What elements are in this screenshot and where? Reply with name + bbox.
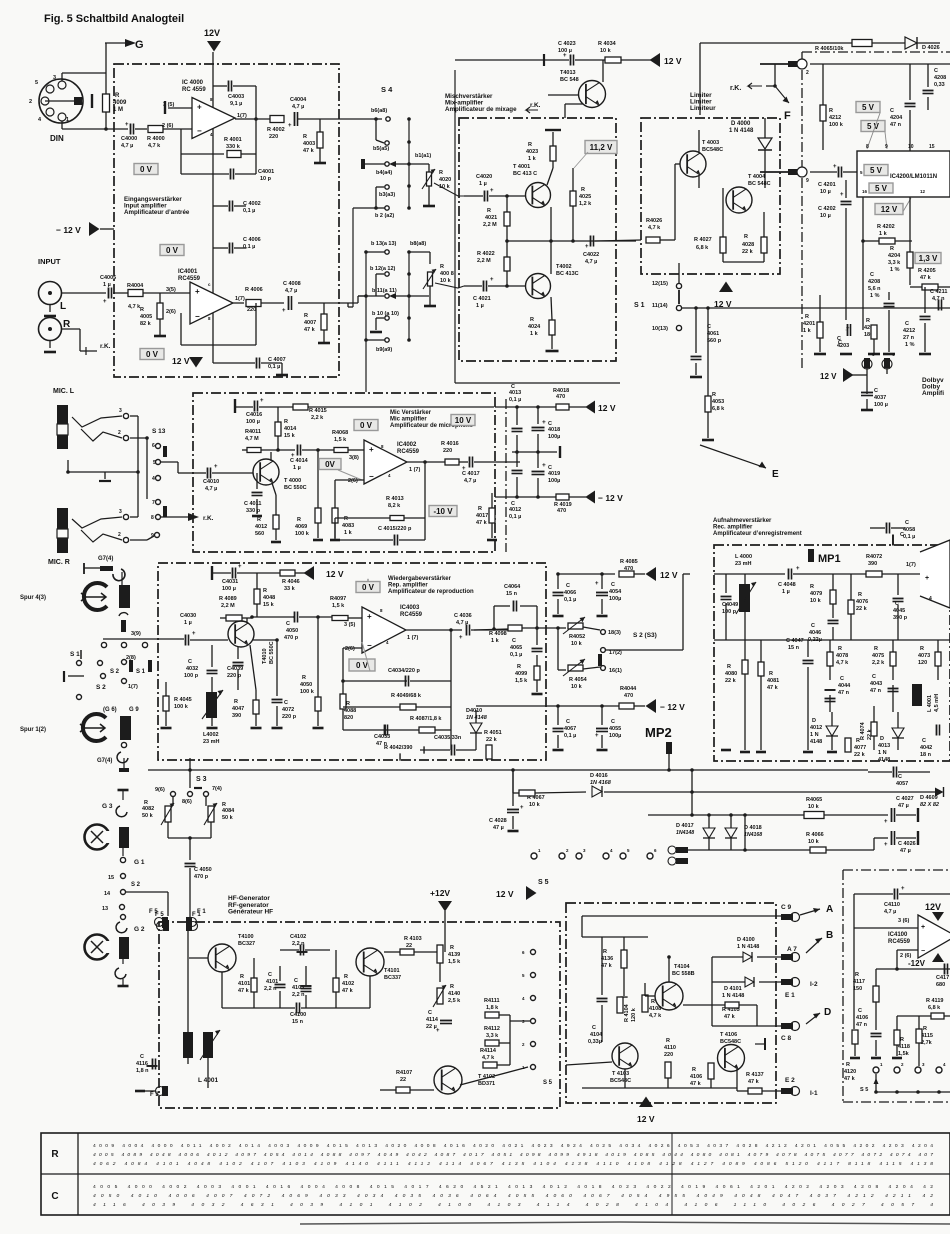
svg-text:MIC. L: MIC. L <box>53 388 75 395</box>
svg-text:T 4000: T 4000 <box>284 478 301 484</box>
svg-text:560 p: 560 p <box>707 338 722 344</box>
svg-text:4,7 µ: 4,7 µ <box>205 486 217 492</box>
svg-text:BC 550C: BC 550C <box>269 641 275 664</box>
svg-text:C 4027: C 4027 <box>896 796 914 802</box>
svg-text:1 N 4148: 1 N 4148 <box>722 993 744 999</box>
svg-text:470 p: 470 p <box>284 635 299 641</box>
svg-text:BD371: BD371 <box>478 1081 495 1087</box>
svg-text:Amplificateur d’enregistrement: Amplificateur d’enregistrement <box>713 531 802 537</box>
svg-text:R: R <box>855 972 859 978</box>
svg-text:4048: 4048 <box>263 595 275 601</box>
svg-text:S 3: S 3 <box>196 776 207 783</box>
svg-text:R 4089: R 4089 <box>219 596 237 602</box>
svg-text:4140: 4140 <box>448 991 460 997</box>
svg-text:47 µ: 47 µ <box>900 848 911 854</box>
svg-text:4117: 4117 <box>853 979 865 985</box>
svg-text:b1(a1): b1(a1) <box>415 153 431 159</box>
svg-text:C: C <box>566 583 570 589</box>
svg-text:C: C <box>905 520 909 526</box>
svg-text:S 2: S 2 <box>110 669 120 675</box>
svg-text:-12V: -12V <box>908 959 926 968</box>
svg-text:22: 22 <box>400 1077 406 1083</box>
svg-text:T4104: T4104 <box>674 964 691 970</box>
svg-text:C: C <box>872 674 876 680</box>
svg-text:G7(4): G7(4) <box>98 556 113 562</box>
svg-text:C: C <box>284 700 288 706</box>
svg-text:b 13(a 13): b 13(a 13) <box>371 241 397 247</box>
svg-text:F 5: F 5 <box>149 909 158 915</box>
svg-text:2,7k: 2,7k <box>921 1040 933 1046</box>
svg-text:R: R <box>920 646 924 652</box>
svg-text:R 4006: R 4006 <box>245 287 263 293</box>
svg-text:9: 9 <box>806 178 809 184</box>
svg-text:D 4018: D 4018 <box>744 825 762 831</box>
svg-text:15 k: 15 k <box>263 602 275 608</box>
svg-text:47 k: 47 k <box>844 1076 856 1082</box>
svg-text:1 M: 1 M <box>113 107 123 113</box>
svg-text:10 p: 10 p <box>260 176 272 182</box>
svg-text:3 (5): 3 (5) <box>344 622 355 628</box>
svg-text:4023: 4023 <box>526 149 538 155</box>
svg-text:R4044: R4044 <box>620 686 637 692</box>
svg-text:+: + <box>563 53 567 59</box>
svg-text:0,1 µ: 0,1 µ <box>268 364 280 370</box>
svg-text:L 4000: L 4000 <box>735 554 752 560</box>
svg-text:0 V: 0 V <box>360 421 373 430</box>
svg-text:470: 470 <box>624 693 633 699</box>
svg-text:− 12 V: − 12 V <box>56 225 81 235</box>
svg-text:R: R <box>440 264 444 270</box>
svg-text:+: + <box>595 733 599 739</box>
svg-text:6: 6 <box>152 443 155 449</box>
svg-text:RC4559: RC4559 <box>888 939 911 945</box>
svg-text:C: C <box>611 582 615 588</box>
svg-text:+: + <box>585 244 589 250</box>
svg-text:1 (7): 1 (7) <box>409 467 420 473</box>
svg-text:Rep. amplifier: Rep. amplifier <box>388 583 428 589</box>
svg-text:23 mH: 23 mH <box>735 561 752 567</box>
svg-text:BC 548C: BC 548C <box>748 181 771 187</box>
svg-text:R 4046: R 4046 <box>282 579 300 585</box>
svg-text:5 V: 5 V <box>862 103 875 112</box>
svg-text:R 4119: R 4119 <box>926 998 943 1004</box>
svg-text:+: + <box>840 192 844 198</box>
svg-text:4020: 4020 <box>439 177 451 183</box>
svg-text:−: − <box>921 948 925 955</box>
svg-text:BC 558B: BC 558B <box>672 971 695 977</box>
svg-text:470: 470 <box>557 508 566 514</box>
svg-text:470 p: 470 p <box>194 874 209 880</box>
svg-text:1,5 k: 1,5 k <box>332 603 345 609</box>
svg-text:1(7): 1(7) <box>128 684 138 690</box>
svg-text:0V: 0V <box>325 460 335 469</box>
svg-text:1 (7): 1 (7) <box>407 635 418 641</box>
svg-text:R 4016: R 4016 <box>441 441 459 447</box>
svg-text:4065: 4065 <box>510 645 522 651</box>
svg-text:4028: 4028 <box>742 242 754 248</box>
svg-text:4067: 4067 <box>564 726 576 732</box>
svg-text:4,7 n: 4,7 n <box>932 296 945 302</box>
svg-text:S 1: S 1 <box>136 669 146 675</box>
svg-text:4,7 k: 4,7 k <box>836 660 849 666</box>
svg-text:82 X 82: 82 X 82 <box>920 802 939 808</box>
svg-text:R: R <box>603 949 607 955</box>
svg-text:+: + <box>197 103 202 112</box>
svg-text:100 p: 100 p <box>184 673 199 679</box>
svg-text:1 µ: 1 µ <box>782 589 790 595</box>
svg-text:1(7): 1(7) <box>235 296 245 302</box>
svg-text:4072: 4072 <box>282 707 294 713</box>
svg-text:16: 16 <box>862 189 868 194</box>
svg-text:R: R <box>140 307 144 313</box>
svg-text:100 k: 100 k <box>295 531 310 537</box>
svg-text:C 4028: C 4028 <box>489 818 507 824</box>
svg-text:R: R <box>257 517 261 523</box>
svg-text:+: + <box>125 122 129 128</box>
svg-text:100µ: 100µ <box>548 478 560 484</box>
svg-text:3: 3 <box>119 408 122 414</box>
svg-text:R: R <box>450 984 454 990</box>
svg-text:1,8 n: 1,8 n <box>136 1068 149 1074</box>
svg-text:b8(a8): b8(a8) <box>410 241 426 247</box>
svg-text:S 4: S 4 <box>381 85 393 94</box>
svg-text:1,8 k: 1,8 k <box>486 1005 499 1011</box>
svg-text:1: 1 <box>66 117 69 123</box>
svg-text:R 4087/1,8 k: R 4087/1,8 k <box>410 716 442 722</box>
svg-text:R: R <box>303 134 307 140</box>
svg-text:220: 220 <box>443 448 452 454</box>
svg-text:47 k: 47 k <box>342 988 354 994</box>
svg-text:R: R <box>874 646 878 652</box>
svg-text:C 4023: C 4023 <box>558 41 576 47</box>
svg-text:4106: 4106 <box>690 1074 702 1080</box>
svg-text:4007: 4007 <box>304 320 316 326</box>
svg-text:R: R <box>769 671 773 677</box>
svg-text:BC548C: BC548C <box>702 147 723 153</box>
svg-text:C: C <box>51 1191 58 1202</box>
svg-text:+: + <box>192 631 196 637</box>
svg-text:4104: 4104 <box>590 1032 603 1038</box>
svg-text:R4072: R4072 <box>866 554 882 560</box>
svg-text:G 1: G 1 <box>134 859 145 866</box>
svg-text:4012: 4012 <box>509 507 521 513</box>
svg-text:Aufnahmeverstärker: Aufnahmeverstärker <box>713 518 772 524</box>
svg-text:1 N: 1 N <box>878 750 887 756</box>
svg-text:− 12 V: − 12 V <box>660 702 685 712</box>
svg-text:R: R <box>344 516 348 522</box>
svg-text:680: 680 <box>936 982 945 988</box>
svg-text:1,5k: 1,5k <box>898 1051 910 1057</box>
svg-text:9: 9 <box>885 144 888 150</box>
svg-text:C4110: C4110 <box>884 902 900 908</box>
svg-text:4,7 k: 4,7 k <box>148 143 161 149</box>
svg-text:+: + <box>459 635 463 641</box>
svg-text:1 µ: 1 µ <box>479 181 487 187</box>
svg-text:R4026: R4026 <box>646 218 662 224</box>
svg-text:8: 8 <box>866 144 869 150</box>
svg-text:1,5 k: 1,5 k <box>334 437 347 443</box>
svg-text:4099: 4099 <box>515 671 527 677</box>
svg-text:R: R <box>234 699 238 705</box>
svg-text:1,5 k: 1,5 k <box>448 959 461 965</box>
svg-text:D: D <box>812 718 816 724</box>
svg-text:4009: 4009 <box>113 100 127 106</box>
svg-text:2: 2 <box>29 99 32 105</box>
svg-text:8,2 k: 8,2 k <box>388 503 401 509</box>
svg-text:C 4050: C 4050 <box>194 867 212 873</box>
svg-text:(G 6): (G 6) <box>103 707 117 713</box>
svg-text:R: R <box>890 246 894 252</box>
svg-text:4148: 4148 <box>810 739 822 745</box>
svg-text:r.K.: r.K. <box>730 85 741 92</box>
svg-text:10 k: 10 k <box>808 804 820 810</box>
svg-text:b3(a3): b3(a3) <box>379 192 395 198</box>
svg-text:R: R <box>727 664 731 670</box>
svg-text:2,2 M: 2,2 M <box>221 603 235 609</box>
svg-text:2,5 k: 2,5 k <box>448 998 461 1004</box>
svg-text:C4001: C4001 <box>258 169 274 175</box>
svg-text:1,3 V: 1,3 V <box>919 254 938 263</box>
svg-text:+: + <box>833 164 837 170</box>
svg-text:C 8: C 8 <box>781 1035 792 1042</box>
svg-text:F 1: F 1 <box>197 909 206 915</box>
svg-text:7(4): 7(4) <box>212 786 222 792</box>
svg-text:15 n: 15 n <box>506 591 518 597</box>
svg-text:R4011: R4011 <box>245 429 261 435</box>
svg-text:BC337: BC337 <box>384 975 401 981</box>
svg-text:5,6 n: 5,6 n <box>868 286 881 292</box>
svg-text:R: R <box>923 1026 927 1032</box>
svg-text:B: B <box>826 930 833 941</box>
svg-text:T4013: T4013 <box>560 70 576 76</box>
svg-text:4013: 4013 <box>509 390 521 396</box>
svg-text:+: + <box>260 398 264 404</box>
svg-text:0,1 µ: 0,1 µ <box>243 244 255 250</box>
svg-text:BC548C: BC548C <box>720 1039 741 1045</box>
svg-text:G 3: G 3 <box>102 803 113 810</box>
svg-text:1,2 k: 1,2 k <box>579 201 592 207</box>
svg-text:C 4048: C 4048 <box>778 582 796 588</box>
svg-text:1 k: 1 k <box>803 328 812 334</box>
svg-text:1N4168: 1N4168 <box>744 832 762 838</box>
svg-text:4024: 4024 <box>528 324 541 330</box>
svg-text:C: C <box>905 321 909 327</box>
svg-text:4,7 µ: 4,7 µ <box>464 478 476 484</box>
svg-text:R: R <box>263 588 267 594</box>
svg-text:4084: 4084 <box>222 808 235 814</box>
svg-text:R: R <box>297 517 301 523</box>
svg-text:4043: 4043 <box>870 681 882 687</box>
svg-text:r.K.: r.K. <box>530 102 541 109</box>
svg-text:C417: C417 <box>936 975 949 981</box>
svg-text:18 n: 18 n <box>920 752 932 758</box>
svg-text:T 4004: T 4004 <box>748 174 766 180</box>
svg-text:47 µ: 47 µ <box>493 825 504 831</box>
svg-text:E 1: E 1 <box>785 992 795 999</box>
svg-text:100µ: 100µ <box>609 733 621 739</box>
svg-text:D: D <box>824 1007 831 1018</box>
svg-text:T 4001: T 4001 <box>513 164 530 170</box>
svg-text:2: 2 <box>118 430 121 436</box>
svg-text:47 n: 47 n <box>870 688 882 694</box>
svg-text:4081: 4081 <box>767 678 779 684</box>
svg-text:2,2 M: 2,2 M <box>477 258 491 264</box>
svg-text:b 12(a 12): b 12(a 12) <box>370 266 396 272</box>
svg-text:4050: 4050 <box>300 682 312 688</box>
svg-text:R: R <box>284 419 288 425</box>
svg-text:4203: 4203 <box>837 343 849 349</box>
svg-text:4046: 4046 <box>809 630 821 636</box>
svg-text:T 4106: T 4106 <box>720 1032 737 1038</box>
svg-text:A 7: A 7 <box>787 946 797 953</box>
svg-text:4066: 4066 <box>564 590 576 596</box>
svg-text:1N 4168: 1N 4168 <box>590 780 612 786</box>
svg-text:0 V: 0 V <box>166 246 179 255</box>
svg-text:R: R <box>838 646 842 652</box>
svg-text:0,1 µ: 0,1 µ <box>903 534 915 540</box>
svg-text:C: C <box>898 774 902 780</box>
svg-text:2(6): 2(6) <box>166 309 176 315</box>
svg-text:4139: 4139 <box>448 952 460 958</box>
svg-text:R 4202: R 4202 <box>877 224 895 230</box>
svg-text:47 n: 47 n <box>856 1022 868 1028</box>
svg-text:IC4002: IC4002 <box>397 442 417 448</box>
svg-text:+: + <box>884 842 888 848</box>
svg-text:4055: 4055 <box>609 726 621 732</box>
svg-text:S 5: S 5 <box>543 1080 553 1086</box>
svg-text:2: 2 <box>118 532 121 538</box>
svg-text:C4030: C4030 <box>180 613 196 619</box>
svg-text:S 1: S 1 <box>634 302 645 309</box>
svg-text:+: + <box>542 419 546 426</box>
svg-text:4080: 4080 <box>725 671 737 677</box>
svg-text:R 4002: R 4002 <box>267 127 285 133</box>
svg-text:120 k: 120 k <box>631 1007 637 1022</box>
svg-text:1 µ: 1 µ <box>476 303 484 309</box>
svg-text:7: 7 <box>152 500 155 506</box>
svg-text:RC4559: RC4559 <box>400 612 423 618</box>
svg-text:C: C <box>890 108 894 114</box>
svg-text:BC 413C: BC 413C <box>556 271 579 277</box>
svg-text:C4016: C4016 <box>246 412 262 418</box>
svg-text:E 2: E 2 <box>785 1077 795 1084</box>
svg-text:r.K.: r.K. <box>100 343 111 350</box>
svg-text:15: 15 <box>108 875 114 881</box>
svg-text:C: C <box>874 388 878 394</box>
svg-text:100 k: 100 k <box>300 689 315 695</box>
svg-text:C4049: C4049 <box>722 602 738 608</box>
svg-text:+: + <box>214 464 218 470</box>
svg-text:470: 470 <box>556 394 565 400</box>
svg-text:820: 820 <box>344 715 353 721</box>
svg-text:390: 390 <box>868 561 877 567</box>
svg-text:D 4017: D 4017 <box>676 823 694 829</box>
svg-text:−: − <box>197 127 202 136</box>
svg-text:C 4201: C 4201 <box>818 182 836 188</box>
svg-text:4077: 4077 <box>854 745 866 751</box>
svg-text:C: C <box>922 738 926 744</box>
svg-text:1N4148: 1N4148 <box>676 830 694 836</box>
svg-text:4018: 4018 <box>548 427 560 433</box>
svg-text:C4010: C4010 <box>203 479 219 485</box>
svg-text:S 5: S 5 <box>538 879 549 886</box>
svg-text:2: 2 <box>806 70 809 76</box>
svg-text:D 4026: D 4026 <box>922 45 940 51</box>
svg-text:Amplificateur d’antrée: Amplificateur d’antrée <box>124 209 190 216</box>
svg-text:G: G <box>135 39 144 51</box>
svg-text:3 (6): 3 (6) <box>898 918 909 924</box>
svg-text:RC4559: RC4559 <box>397 449 420 455</box>
svg-text:S 5: S 5 <box>860 1087 868 1093</box>
svg-text:220 p: 220 p <box>227 673 242 679</box>
svg-text:1(7): 1(7) <box>237 113 247 119</box>
svg-text:R: R <box>304 313 308 319</box>
svg-text:Amplificateur de mixage: Amplificateur de mixage <box>445 106 517 113</box>
svg-text:Fig. 5 Schaltbild Analogteil: Fig. 5 Schaltbild Analogteil <box>44 13 184 25</box>
svg-text:C 4007: C 4007 <box>268 357 286 363</box>
svg-text:4106: 4106 <box>856 1015 868 1021</box>
svg-text:47 k: 47 k <box>476 520 488 526</box>
svg-text:82 k: 82 k <box>140 321 152 327</box>
svg-text:BC 550C: BC 550C <box>284 485 307 491</box>
svg-text:6,8 k: 6,8 k <box>696 245 709 251</box>
svg-text:C4100: C4100 <box>290 1012 306 1018</box>
svg-text:Générateur HF: Générateur HF <box>228 909 273 916</box>
svg-text:+: + <box>595 581 599 587</box>
svg-text:Mic Verstärker: Mic Verstärker <box>390 410 432 416</box>
svg-text:S 2: S 2 <box>131 882 141 888</box>
svg-text:+: + <box>796 566 800 572</box>
svg-text:+: + <box>103 299 107 305</box>
svg-text:47 k: 47 k <box>920 275 932 281</box>
svg-text:C 4006: C 4006 <box>243 237 261 243</box>
svg-text:330 k: 330 k <box>226 144 241 150</box>
svg-text:R: R <box>805 314 809 320</box>
svg-text:C: C <box>870 272 874 278</box>
svg-text:220: 220 <box>247 307 256 313</box>
svg-text:470: 470 <box>624 566 633 572</box>
svg-text:C4003: C4003 <box>228 94 244 100</box>
svg-text:R 4085: R 4085 <box>620 559 638 565</box>
svg-text:+: + <box>520 805 524 811</box>
svg-text:11(14): 11(14) <box>652 303 668 309</box>
svg-text:47 n: 47 n <box>838 690 850 696</box>
svg-text:+: + <box>921 924 925 931</box>
svg-text:3,3 k: 3,3 k <box>888 260 901 266</box>
svg-text:C: C <box>188 659 192 665</box>
svg-text:1,5 k: 1,5 k <box>515 678 528 684</box>
svg-text:4,7 k: 4,7 k <box>649 1013 662 1019</box>
svg-text:C: C <box>837 336 841 342</box>
svg-text:22 k: 22 k <box>486 737 498 743</box>
svg-text:D4010: D4010 <box>466 708 482 714</box>
svg-text:3(8): 3(8) <box>349 455 359 461</box>
svg-text:b4(a4): b4(a4) <box>376 170 392 176</box>
svg-text:+: + <box>238 564 242 570</box>
svg-text:22 k: 22 k <box>725 678 737 684</box>
svg-text:R4112: R4112 <box>484 1026 500 1032</box>
svg-text:D 4101: D 4101 <box>724 986 742 992</box>
svg-text:12: 12 <box>920 189 926 194</box>
svg-text:0 V: 0 V <box>140 165 153 174</box>
svg-text:47 k: 47 k <box>304 327 316 333</box>
svg-text:0 V: 0 V <box>146 350 159 359</box>
svg-text:4120: 4120 <box>844 1069 856 1075</box>
svg-text:18(3): 18(3) <box>608 630 621 636</box>
svg-text:R 4051: R 4051 <box>484 730 502 736</box>
svg-text:4,7 µ: 4,7 µ <box>884 909 896 915</box>
svg-text:2(6): 2(6) <box>348 478 358 484</box>
